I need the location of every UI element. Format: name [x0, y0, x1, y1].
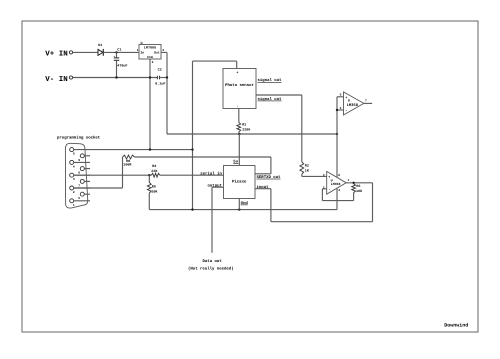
- svg-text:3: 3: [323, 174, 325, 177]
- wire: V- line: [73, 77, 158, 79]
- microcontroller Picaxe: [224, 166, 256, 199]
- svg-text:-: -: [328, 189, 330, 193]
- svg-text:7: 7: [78, 184, 80, 187]
- svg-text:7: 7: [365, 99, 367, 102]
- wire: DB9 pin2 riser: [74, 187, 123, 189]
- svg-text:6: 6: [78, 197, 80, 200]
- svg-text:U: U: [141, 41, 143, 46]
- svg-text:Data out: Data out: [203, 259, 223, 264]
- pin label SERTXD out: [257, 175, 282, 180]
- node: [149, 76, 151, 78]
- wire: - input stub: [322, 188, 326, 190]
- wire: [160, 174, 224, 176]
- op-amp U LM358 (pins 5,6,7): [340, 92, 367, 115]
- svg-text:8: 8: [338, 174, 340, 177]
- svg-text:+: +: [236, 70, 238, 75]
- svg-text:input: input: [257, 185, 270, 190]
- wire: - input stub: [337, 109, 344, 111]
- wire: output stub pin 7: [364, 102, 372, 104]
- svg-text:4: 4: [73, 165, 75, 168]
- resistor R1 2200: [237, 123, 250, 133]
- svg-text:3: 3: [73, 178, 75, 181]
- DB9 pin 1: [70, 199, 90, 207]
- DB9 pin 7: [78, 179, 90, 187]
- wire: photo + to ground loop: [236, 61, 238, 68]
- wire: input tie vertical: [336, 97, 338, 134]
- wire: +5V rail: [167, 133, 337, 135]
- node: [149, 148, 151, 150]
- node: [191, 208, 193, 210]
- svg-text:Out: Out: [154, 51, 160, 55]
- svg-text:R2: R2: [305, 164, 309, 169]
- node: [238, 208, 240, 210]
- node: C1 tap on V+: [115, 51, 117, 53]
- svg-text:2: 2: [152, 61, 154, 64]
- svg-text:C2: C2: [158, 68, 162, 73]
- svg-text:Picaxe: Picaxe: [232, 180, 247, 185]
- svg-text:Photo sensor: Photo sensor: [225, 83, 254, 88]
- op-amp U LM358 (pins 1,2,3,4,8): [323, 171, 350, 194]
- capacitor C1 470uF: [113, 47, 127, 77]
- node: R1/5v column joins rail: [238, 133, 240, 135]
- svg-text:10K: 10K: [151, 189, 158, 194]
- node: [115, 76, 117, 78]
- wire: output loop to picaxe input: [372, 183, 374, 222]
- node: [166, 76, 168, 78]
- svg-text:2200: 2200: [242, 128, 250, 133]
- wire: SERTXD line: [135, 156, 271, 158]
- DB9 pin 6: [78, 192, 90, 200]
- photo sensor module: [223, 69, 256, 110]
- wire: + input stub: [337, 96, 344, 98]
- capacitor C2 0.1uF: [155, 68, 167, 87]
- svg-text:LM358: LM358: [331, 182, 341, 186]
- svg-text:R5: R5: [152, 185, 156, 190]
- node: R5 tap: [148, 174, 150, 176]
- svg-text:-: -: [345, 109, 347, 113]
- svg-text:10K: 10K: [356, 189, 363, 194]
- svg-text:D1: D1: [98, 43, 102, 48]
- svg-text:In: In: [140, 51, 144, 55]
- wire: pin8 to +5 rail: [336, 134, 338, 177]
- wire: [238, 132, 240, 134]
- svg-text:(Not really needed): (Not really needed): [188, 266, 234, 271]
- svg-text:R4: R4: [152, 164, 156, 169]
- wire: Gnd pin: [238, 199, 240, 210]
- DB9 pin 9: [78, 154, 90, 162]
- svg-text:22K: 22K: [151, 169, 158, 174]
- resistor R6 100R: [123, 155, 135, 167]
- svg-text:R3: R3: [356, 184, 360, 189]
- DB9 pin 2: [70, 186, 90, 194]
- DB9 connector body: [65, 143, 87, 208]
- wire: data out drop: [211, 187, 213, 253]
- pin label Gnd: [241, 201, 249, 206]
- wire: pin4 to ground rail: [336, 188, 338, 209]
- wire: signal vertical to R2: [301, 95, 303, 162]
- DB9 pin 4: [70, 160, 90, 168]
- wire: ground rail: [149, 209, 337, 211]
- wire: Out to +5 vertical: [161, 51, 167, 53]
- net label signal out (upper): [258, 78, 283, 83]
- wire: [73, 51, 98, 53]
- svg-text:4: 4: [338, 189, 340, 192]
- wire: main ground vertical: [192, 61, 194, 210]
- svg-text:0.1uF: 0.1uF: [155, 82, 165, 87]
- DB9 pin 3: [70, 173, 90, 181]
- svg-text:C1: C1: [117, 47, 121, 52]
- border frame: [22, 21, 478, 332]
- svg-text:V+ IN: V+ IN: [45, 51, 68, 59]
- svg-text:1: 1: [137, 49, 139, 52]
- wire: input pin stub: [255, 188, 271, 190]
- svg-text:5: 5: [73, 153, 75, 156]
- svg-text:programming socket: programming socket: [57, 135, 101, 140]
- svg-text:V- IN: V- IN: [45, 76, 68, 84]
- svg-text:U: U: [348, 99, 350, 104]
- resistor R2 1K: [300, 162, 310, 174]
- node: rail end at op-amp column: [336, 133, 338, 135]
- svg-text:R1: R1: [242, 123, 246, 128]
- svg-text:2: 2: [73, 191, 75, 194]
- pin label 5v: [233, 160, 238, 165]
- svg-text:serial in: serial in: [200, 172, 222, 177]
- wire: photo - to R1: [238, 109, 240, 123]
- regulator U1 LM7805: [137, 41, 165, 64]
- svg-text:3: 3: [162, 49, 164, 52]
- svg-text:5: 5: [340, 94, 342, 97]
- net label signal out (lower) + wire: [256, 95, 302, 102]
- wire: serial line from DB9 pin3: [74, 174, 152, 176]
- wire: +5V vertical drop: [166, 52, 168, 134]
- svg-text:1: 1: [73, 204, 75, 207]
- node: [191, 148, 193, 150]
- wire: 5v pin: [238, 134, 240, 166]
- svg-text:Downwind: Downwind: [444, 323, 468, 329]
- diode D1: [98, 43, 103, 56]
- wire: output: [346, 182, 372, 184]
- wire: [103, 51, 139, 53]
- svg-text:Com: Com: [147, 55, 153, 59]
- wire: Com ground drop: [149, 59, 151, 150]
- resistor R3 10K: [352, 184, 363, 194]
- svg-text:9: 9: [78, 159, 80, 162]
- node: [336, 109, 338, 111]
- resistor R5 10K: [147, 175, 158, 209]
- svg-text:8: 8: [78, 172, 80, 175]
- DB9 pin 5: [70, 148, 90, 156]
- wire: feedback loop: [321, 189, 323, 201]
- node: R3 tap: [352, 182, 354, 184]
- resistor R4 22K: [151, 164, 160, 177]
- svg-text:1: 1: [347, 179, 349, 182]
- wire: output pin stub: [212, 186, 224, 188]
- svg-text:LM358: LM358: [347, 103, 359, 108]
- svg-text:100R: 100R: [123, 162, 132, 167]
- svg-text:470uF: 470uF: [117, 63, 127, 68]
- DB9 pin 8: [78, 167, 90, 175]
- wire: R2 to + input: [301, 174, 303, 176]
- wire: pin5 ground link: [90, 149, 193, 151]
